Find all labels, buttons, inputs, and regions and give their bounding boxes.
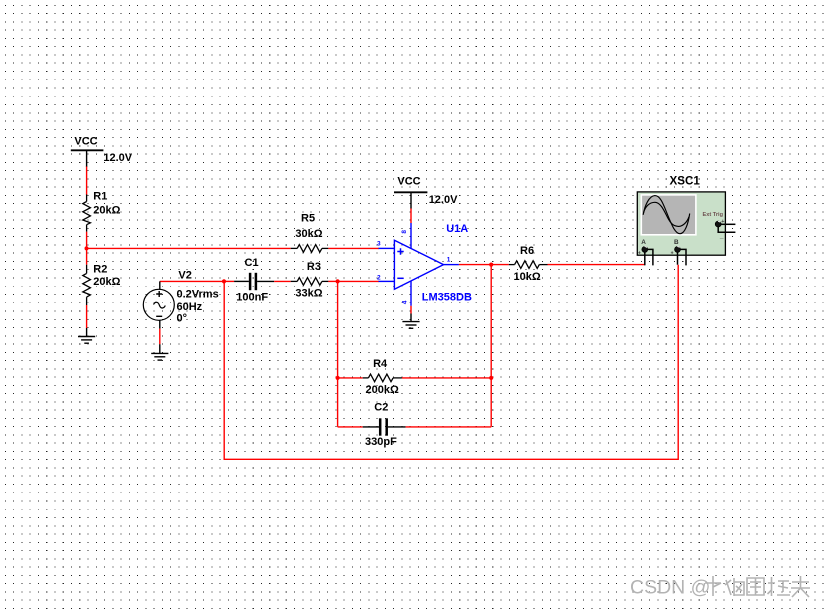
label 12.0V (op-amp VCC) <box>429 194 458 206</box>
capacitor C2 <box>363 401 406 448</box>
watermark CSDN <box>630 577 710 599</box>
wire node E to R4 <box>338 377 363 379</box>
svg-text:R1: R1 <box>93 191 107 203</box>
svg-text:12.0V: 12.0V <box>103 152 132 164</box>
node D junction <box>489 263 493 267</box>
svg-text:1: 1 <box>447 256 451 263</box>
oscilloscope XSC1 <box>637 192 725 257</box>
resistor R4 <box>363 358 402 396</box>
wire VCC stub black <box>86 150 88 167</box>
power symbol VCC (left) <box>71 135 104 150</box>
svg-text:R6: R6 <box>520 245 534 257</box>
resistor R5 <box>291 213 329 253</box>
wire node A to R2 <box>86 248 88 264</box>
svg-text:VCC: VCC <box>397 176 420 188</box>
svg-text:LM358DB: LM358DB <box>422 292 472 304</box>
svg-text:100nF: 100nF <box>236 292 268 304</box>
svg-text:60Hz: 60Hz <box>177 301 203 313</box>
capacitor C1 <box>234 257 274 304</box>
label 12.0V (left VCC) <box>103 152 132 164</box>
node F junction <box>489 376 493 380</box>
svg-text:0.2Vrms: 0.2Vrms <box>177 288 219 300</box>
wire R3 to node C <box>328 280 337 282</box>
svg-text:12.0V: 12.0V <box>429 194 458 206</box>
svg-text:_: _ <box>719 232 724 239</box>
svg-text:R2: R2 <box>93 263 107 275</box>
svg-text:0°: 0° <box>177 313 188 325</box>
scope pin A minus stub <box>648 249 653 265</box>
wire R5 to op-amp pin3 <box>328 247 379 249</box>
svg-text:C1: C1 <box>245 257 259 269</box>
svg-text:CSDN @: CSDN @ <box>630 577 710 599</box>
svg-text:8: 8 <box>401 230 408 234</box>
svg-text:330pF: 330pF <box>365 436 397 448</box>
svg-text:R4: R4 <box>373 358 388 370</box>
wire C1 to R3 <box>274 280 291 282</box>
ground (V2) <box>151 353 168 360</box>
svg-text:C2: C2 <box>374 401 388 413</box>
wire V2 to ground <box>159 329 161 354</box>
resistor R1 <box>83 191 121 232</box>
scope pin A <box>644 252 646 265</box>
resistor R6 <box>509 245 548 283</box>
scope ext trig pins <box>718 224 735 232</box>
label XSC1 <box>670 175 701 188</box>
resistor R3 <box>291 261 329 299</box>
svg-text:200kΩ: 200kΩ <box>366 384 399 396</box>
svg-text:+: + <box>671 251 674 257</box>
node E junction <box>336 376 340 380</box>
wire feedback right vertical <box>490 265 492 427</box>
ground (left) <box>78 337 95 344</box>
wire node B to C1 <box>224 280 234 282</box>
svg-text:10kΩ: 10kΩ <box>514 271 541 283</box>
wire node A to R5 (non-inverting row) <box>87 247 291 249</box>
svg-text:_: _ <box>653 250 658 256</box>
svg-text:VCC: VCC <box>74 135 97 147</box>
node B junction <box>222 279 226 283</box>
svg-text:3: 3 <box>377 240 381 247</box>
wire R4 to node F <box>402 377 491 379</box>
AC source V2 <box>143 269 218 328</box>
label LM358DB <box>422 292 472 304</box>
svg-text:V2: V2 <box>178 269 191 281</box>
label U1A <box>446 223 468 235</box>
svg-text:33kΩ: 33kΩ <box>295 287 322 299</box>
svg-text:XSC1: XSC1 <box>670 175 701 188</box>
wire VCC to op-amp pin8 <box>410 192 412 223</box>
scope pin B <box>677 252 679 264</box>
wire op-amp pin4 to ground <box>410 306 412 322</box>
wire op-amp output to node D <box>459 264 509 266</box>
svg-text:A: A <box>641 239 646 246</box>
op-amp U1A <box>377 223 459 306</box>
svg-text:20kΩ: 20kΩ <box>93 205 120 217</box>
svg-text:R5: R5 <box>301 213 315 225</box>
node C junction <box>336 279 340 283</box>
wire feedback left vertical <box>337 281 339 427</box>
svg-text:20kΩ: 20kΩ <box>93 276 120 288</box>
wire V2 to node B <box>160 280 224 282</box>
scope pin B minus stub <box>680 249 686 265</box>
svg-text:30kΩ: 30kΩ <box>295 228 322 240</box>
node A junction <box>85 246 89 250</box>
svg-text:B: B <box>674 239 679 246</box>
wire R6 to scope A <box>548 264 645 266</box>
svg-text:U1A: U1A <box>446 223 468 235</box>
power symbol VCC (op-amp) <box>394 176 427 193</box>
wire node C to op-amp pin2 <box>338 280 379 282</box>
svg-text:+: + <box>638 251 641 257</box>
svg-text:R3: R3 <box>307 261 321 273</box>
resistor R2 <box>83 263 121 305</box>
watermark chinese glyphs <box>705 576 810 597</box>
wire VCC to R1 <box>86 167 88 196</box>
wire bottom loop node B to scope B <box>224 265 678 460</box>
wire R1 to node A <box>86 232 88 249</box>
ground (op-amp) <box>402 322 419 329</box>
svg-text:4: 4 <box>401 300 408 304</box>
svg-text:2: 2 <box>377 275 381 282</box>
svg-text:Ext Trig: Ext Trig <box>703 212 724 218</box>
wire C2 right <box>406 426 492 428</box>
wire R2 to ground <box>86 305 88 337</box>
wire C2 left <box>338 426 363 428</box>
